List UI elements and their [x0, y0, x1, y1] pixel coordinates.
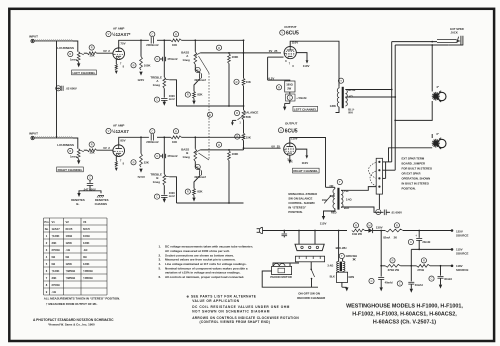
- svg-text:IN BUILT IN STEREO: IN BUILT IN STEREO: [402, 181, 430, 185]
- svg-text:270Ω 2W: 270Ω 2W: [388, 268, 400, 272]
- svg-text:R: R: [91, 143, 93, 147]
- ground B- below 82K ch2: [193, 195, 195, 197]
- cathode resistor V1B: [115, 157, 117, 162]
- svg-text:H-F1002, H-F1003, H-60ACS1, H-: H-F1002, H-F1003, H-60ACS1, H-60ACS2,: [352, 312, 457, 318]
- svg-text:R: R: [236, 135, 238, 139]
- svg-text:B: B: [209, 113, 211, 117]
- capacitor 1000mmf ch1: [163, 88, 165, 97]
- rectifier diode M1: [367, 223, 372, 228]
- capacitor 470mmf ch2: [163, 137, 165, 174]
- cathode bypass capacitor 50mfd: [289, 92, 291, 94]
- svg-text:BOARD. JUMPER: BOARD. JUMPER: [402, 162, 425, 166]
- output transformer T1: [338, 78, 343, 83]
- svg-text:(CONTROL VIEWED FROM SHAFT END: (CONTROL VIEWED FROM SHAFT END): [200, 320, 271, 324]
- svg-text:V: V: [280, 128, 282, 132]
- svg-text:C: C: [410, 240, 412, 244]
- svg-text:120K: 120K: [66, 241, 72, 245]
- svg-text:RECORD CHANGER: RECORD CHANGER: [297, 296, 326, 300]
- wire loudness wiper to R3 ch1: [84, 52, 87, 54]
- svg-text:SOURCE: SOURCE: [456, 268, 468, 272]
- svg-text:OPERATION. SHOWN: OPERATION. SHOWN: [402, 177, 431, 181]
- svg-text:C: C: [399, 282, 401, 286]
- svg-text:† MEASURED FROM OUTPUT OF M1: † MEASURED FROM OUTPUT OF M1.: [46, 302, 98, 306]
- resistor 100K bass return ch1: [216, 45, 221, 50]
- svg-text:R: R: [69, 52, 71, 56]
- svg-text:EXT SPKR: EXT SPKR: [450, 27, 463, 31]
- AC line plug: [259, 227, 262, 233]
- wire bass wiper grid rail ch2: [200, 149, 243, 151]
- svg-text:2W: 2W: [287, 87, 291, 91]
- svg-text:BLK: BLK: [330, 274, 335, 278]
- svg-text:0V: 0V: [269, 49, 273, 53]
- svg-text:.01 600V: .01 600V: [391, 210, 402, 214]
- filter capacitor 40mfd first: [369, 278, 374, 283]
- svg-text:120K: 120K: [66, 262, 72, 266]
- svg-text:2000mmf: 2000mmf: [146, 43, 158, 47]
- plate load resistor 100K ch2: [131, 160, 136, 165]
- svg-text:OUTPUT: OUTPUT: [285, 121, 298, 125]
- svg-text:LOUDNESS: LOUDNESS: [57, 143, 74, 147]
- plate rail wire ch1: [119, 40, 149, 48]
- svg-text:R: R: [187, 93, 189, 97]
- resistor 15K divider lower: [235, 134, 240, 139]
- wire 6.2V node to cathode resistor: [268, 79, 290, 82]
- svg-text:82K: 82K: [197, 190, 202, 194]
- svg-text:IN “STEREO”: IN “STEREO”: [288, 206, 306, 210]
- ganging dashed link bass controls: [199, 56, 210, 73]
- screen stub V2 110V: [296, 53, 307, 61]
- svg-text:110V: 110V: [302, 161, 309, 165]
- ext spkr terminal board: [376, 158, 382, 194]
- svg-text:120K: 120K: [83, 262, 89, 266]
- resistor 10K ch2: [173, 129, 178, 134]
- filter capacitor 40mfd second: [429, 276, 434, 281]
- svg-text:C: C: [151, 32, 153, 36]
- svg-text:40mfd: 40mfd: [444, 277, 452, 281]
- bass slider tap capacitor 3900mmf ch1: [195, 64, 200, 73]
- svg-text:2000mmf: 2000mmf: [146, 140, 158, 144]
- svg-text:+ 50mfd: + 50mfd: [296, 96, 307, 100]
- svg-text:20mfd: 20mfd: [422, 240, 430, 244]
- svg-text:470mmf: 470mmf: [167, 57, 177, 61]
- svg-text:C: C: [156, 98, 158, 102]
- resistor 82K ch2: [194, 175, 200, 188]
- svg-text:130V: 130V: [376, 226, 383, 230]
- svg-text:V2: V2: [66, 220, 70, 224]
- wire T1 blue tap to ext spkr jack: [345, 89, 391, 91]
- svg-text:1meg: 1meg: [153, 83, 161, 87]
- svg-text:R: R: [133, 160, 135, 164]
- svg-text:C: C: [89, 176, 91, 180]
- svg-text:85V: 85V: [120, 139, 125, 143]
- wire treble wiper to junction ch2: [169, 177, 176, 203]
- svg-text:NOT SHOWN ON SCHEMATIC DIAGRAM: NOT SHOWN ON SCHEMATIC DIAGRAM: [192, 310, 270, 314]
- wire drops to record changer plug: [298, 231, 300, 245]
- svg-text:R: R: [187, 190, 189, 194]
- svg-text:R: R: [396, 223, 398, 227]
- wire term board bottom to cap: [378, 194, 380, 209]
- svg-text:82mA: 82mA: [383, 235, 390, 239]
- bass control 1meg ch1: [194, 40, 196, 52]
- wire speaker2 to term board: [431, 134, 433, 138]
- svg-text:†120K: †120K: [52, 234, 60, 238]
- svg-text:100Ω: 100Ω: [66, 234, 73, 238]
- svg-text:ALL MEASUREMENTS TAKEN IN “STE: ALL MEASUREMENTS TAKEN IN “STEREO” POSIT…: [44, 297, 120, 301]
- svg-text:180Ω: 180Ω: [286, 83, 293, 87]
- balance control 50K: [234, 110, 239, 115]
- surge resistor 2K: [394, 223, 399, 228]
- svg-text:BALANCE: BALANCE: [244, 111, 258, 115]
- svg-text:110V: 110V: [303, 64, 310, 68]
- svg-text:10Ω 2W: 10Ω 2W: [352, 232, 362, 236]
- capacitor .02 600V across inputs: [56, 86, 61, 91]
- svg-text:†3850Ω: †3850Ω: [66, 269, 76, 273]
- resistor 33K grid stopper ch1: [89, 45, 94, 50]
- svg-text:WESTINGHOUSE MODELS H-F1000, H: WESTINGHOUSE MODELS H-F1000, H-F1001,: [346, 304, 463, 310]
- svg-text:33K: 33K: [52, 241, 57, 245]
- svg-text:V1: V1: [52, 220, 56, 224]
- wire loudness wiper to R3 ch2: [84, 149, 87, 151]
- AC line wire upper: [263, 230, 348, 232]
- resistor 10K ch1: [173, 32, 178, 37]
- ground B- below 82K ch1: [193, 98, 195, 100]
- wire upper cathode feed vertical: [267, 57, 269, 80]
- svg-text:25: 25: [274, 49, 278, 53]
- wire to V1A grid: [97, 52, 113, 54]
- svg-text:GRN: GRN: [330, 104, 336, 108]
- boxed label LEFT CHANNEL preamp: [72, 70, 97, 75]
- svg-text:½12AX7: ½12AX7: [112, 129, 129, 134]
- svg-text:470mmf: 470mmf: [167, 154, 177, 158]
- svg-text:†3850Ω: †3850Ω: [66, 276, 76, 280]
- svg-text:1meg: 1meg: [153, 180, 161, 184]
- line bypass capacitor: [283, 230, 285, 232]
- svg-text:1meg: 1meg: [70, 58, 78, 62]
- svg-text:PHONO MOTOR: PHONO MOTOR: [270, 275, 291, 279]
- svg-text:POSITION.: POSITION.: [288, 210, 302, 214]
- ground B- under motor box: [341, 282, 343, 287]
- svg-text:C: C: [371, 279, 373, 283]
- svg-text:BLK-WH: BLK-WH: [336, 246, 347, 250]
- svg-text:FOR BUILT IN STEREO: FOR BUILT IN STEREO: [402, 167, 433, 171]
- svg-text:33K: 33K: [52, 276, 57, 280]
- svg-text:100Ω: 100Ω: [83, 234, 90, 238]
- screen stub V3 110V: [296, 149, 307, 155]
- tone network bottom wire ch2: [177, 202, 244, 204]
- filter capacitor 40mfd middle: [397, 281, 402, 286]
- svg-text:R: R: [355, 223, 357, 227]
- svg-text:AF AMP: AF AMP: [113, 26, 124, 30]
- svg-text:10K: 10K: [246, 80, 251, 84]
- left channel circuitry: [29, 26, 244, 107]
- svg-text:115V: 115V: [320, 222, 327, 226]
- svg-text:22K: 22K: [144, 161, 149, 165]
- svg-text:82K: 82K: [197, 93, 202, 97]
- svg-text:1meg: 1meg: [182, 58, 190, 62]
- svg-text:0V: 0V: [103, 49, 107, 53]
- record changer socket connector: [295, 256, 324, 262]
- svg-text:Pin: Pin: [44, 220, 49, 224]
- boxed label RIGHT CHANNEL output: [293, 168, 320, 173]
- svg-text:2700Ω: 2700Ω: [52, 283, 61, 287]
- svg-text:JACK: JACK: [451, 31, 458, 35]
- svg-text:1meg: 1meg: [70, 155, 78, 159]
- svg-text:3.4Ω: 3.4Ω: [346, 198, 352, 202]
- svg-text:R: R: [69, 149, 71, 153]
- svg-text:RIGHT CHANNEL: RIGHT CHANNEL: [58, 168, 83, 172]
- T1 primary bottom lead: [336, 107, 340, 113]
- svg-text:1meg: 1meg: [182, 155, 190, 159]
- svg-text:EXT SPKR TERM: EXT SPKR TERM: [402, 157, 425, 161]
- svg-text:V: V: [108, 32, 110, 36]
- svg-text:C: C: [156, 57, 158, 61]
- capacitor .01 600V ext spkr: [376, 209, 381, 214]
- phono motor leads: [273, 263, 299, 266]
- ground B- at loudness R ch2: [78, 159, 80, 160]
- wire T2 yel tap to board: [341, 187, 376, 191]
- wire 118V source line: [381, 265, 385, 267]
- jumper dashed arcs on term board: [369, 163, 377, 179]
- svg-text:100K: 100K: [144, 64, 151, 68]
- voltage chart table: [44, 218, 108, 295]
- svg-text:120K: 120K: [83, 241, 89, 245]
- bass control 1meg ch2: [194, 137, 196, 149]
- svg-text:+: +: [415, 234, 417, 238]
- svg-text:*Howard W. Sams & Co., Inc. 19: *Howard W. Sams & Co., Inc. 1960: [48, 322, 95, 326]
- svg-text:6CU5: 6CU5: [285, 129, 298, 135]
- svg-text:AF AMP: AF AMP: [113, 123, 124, 127]
- shielded input cable ch2: [35, 137, 74, 139]
- svg-text:POSITION.: POSITION.: [402, 186, 416, 190]
- svg-text:LEFT CHANNEL: LEFT CHANNEL: [294, 107, 317, 111]
- wire input to loudness ch1: [73, 41, 78, 52]
- wire bass wiper grid rail ch1: [200, 52, 243, 54]
- right channel circuitry: [29, 123, 244, 204]
- coupling capacitor 2000mmf ch2: [150, 129, 155, 134]
- resistor 10K divider: [234, 79, 239, 84]
- svg-text:40mfd: 40mfd: [385, 281, 393, 285]
- wire treble wiper to junction ch1: [169, 80, 176, 106]
- motor field box: [336, 272, 347, 282]
- svg-text:C: C: [156, 195, 158, 199]
- svg-text:R: R: [133, 63, 135, 67]
- wire to 125V source: [403, 230, 452, 232]
- svg-text:25: 25: [277, 144, 281, 148]
- svg-text:R: R: [91, 46, 93, 50]
- svg-text:BLK: BLK: [344, 206, 349, 210]
- svg-text:All controls at minimum, prope: All controls at minimum, proper output l…: [165, 275, 244, 279]
- wires into term board: [383, 161, 392, 163]
- svg-text:V: V: [108, 129, 110, 133]
- B plus bus vertical with ground: [380, 231, 382, 277]
- power transformer T3 windings: [338, 231, 340, 262]
- svg-text:YEL: YEL: [344, 189, 349, 193]
- svg-text:SOURCE: SOURCE: [456, 234, 468, 238]
- svg-text:SOURCE: SOURCE: [456, 251, 468, 255]
- svg-text:6.: 6.: [159, 275, 162, 279]
- svg-text:0V: 0V: [103, 146, 107, 150]
- ground B- cathode network: [289, 101, 291, 103]
- svg-text:INPUT: INPUT: [29, 131, 38, 135]
- svg-text:DENOTES: DENOTES: [71, 198, 85, 202]
- svg-text:33K: 33K: [90, 151, 95, 155]
- cathode resistor V1A: [115, 60, 117, 65]
- resistor 82K ch1: [194, 78, 200, 91]
- svg-text:15K: 15K: [246, 135, 251, 139]
- boxed label RIGHT CHANNEL preamp: [57, 167, 84, 172]
- coupling capacitor 2000mmf ch1: [150, 32, 155, 37]
- svg-text:CONTROL. SHOWN: CONTROL. SHOWN: [288, 201, 314, 205]
- rectifier line resistor 10ohm 2W: [353, 223, 358, 228]
- svg-text:SW ON BALANCE: SW ON BALANCE: [288, 197, 312, 201]
- svg-text:.02 600V: .02 600V: [66, 87, 77, 91]
- svg-text:R: R: [218, 143, 220, 147]
- svg-text:OR EXT SPKR: OR EXT SPKR: [402, 172, 421, 176]
- plate wire V2 to output transformer T1: [290, 41, 339, 86]
- wire speaker1 to bus: [395, 101, 432, 120]
- svg-text:C: C: [377, 210, 379, 214]
- svg-text:⊕ SEE PARTS LIST FOR ALTERNATE: ⊕ SEE PARTS LIST FOR ALTERNATE: [187, 295, 257, 299]
- svg-text:C: C: [431, 277, 433, 281]
- svg-text:R: R: [423, 259, 425, 263]
- svg-text:R: R: [175, 32, 177, 36]
- svg-text:2700Ω: 2700Ω: [52, 248, 61, 252]
- svg-text:M: M: [368, 223, 370, 227]
- ground B- below 1000mmf ch1: [163, 100, 165, 101]
- wire T1 yel tap to jack lower: [345, 96, 395, 98]
- grid wire V3: [244, 147, 281, 149]
- svg-text:RIGHT CHANNEL: RIGHT CHANNEL: [293, 169, 318, 173]
- svg-text:C: C: [156, 154, 158, 158]
- boxed label LEFT CHANNEL output: [293, 106, 318, 111]
- svg-text:B-: B-: [76, 202, 79, 206]
- svg-text:0V: 0V: [271, 144, 275, 148]
- B+ divider vertical wire: [243, 40, 245, 78]
- wire T2 blk tap to cap C .01: [341, 207, 383, 212]
- svg-text:½12AX7*: ½12AX7*: [112, 32, 131, 37]
- filter capacitor 20mfd: [408, 239, 413, 244]
- ground B- arrow power bus: [380, 287, 383, 291]
- svg-text:3.4Ω: 3.4Ω: [327, 264, 334, 268]
- svg-text:C: C: [197, 165, 199, 169]
- svg-text:VALUE OR APPLICATION: VALUE OR APPLICATION: [192, 299, 240, 303]
- svg-text:C: C: [197, 68, 199, 72]
- svg-text:ARROWS ON CONTROLS INDICATE CL: ARROWS ON CONTROLS INDICATE CLOCKWISE RO…: [192, 316, 299, 320]
- svg-text:GRN-WH: GRN-WH: [346, 254, 357, 258]
- svg-text:R: R: [218, 46, 220, 50]
- svg-text:†120K: †120K: [52, 269, 60, 273]
- resistor 270ohm 2W: [390, 258, 395, 263]
- svg-text:R: R: [236, 80, 238, 84]
- svg-text:R: R: [175, 129, 177, 133]
- svg-text:R: R: [392, 259, 394, 263]
- ground B- below 1000mmf ch2: [163, 197, 165, 198]
- svg-text:mmf: mmf: [169, 194, 175, 198]
- svg-text:DC COIL RESISTANCE VALUES UNDE: DC COIL RESISTANCE VALUES UNDER ONE OHM: [192, 305, 290, 309]
- svg-text:C: C: [289, 96, 291, 100]
- resistor 100K bass return ch2: [216, 142, 221, 147]
- svg-text:10K: 10K: [172, 140, 177, 144]
- input shield bus wire: [56, 41, 58, 138]
- svg-text:No: No: [45, 227, 49, 231]
- svg-text:50K: 50K: [246, 115, 251, 119]
- svg-text:B: B: [156, 176, 158, 180]
- svg-text:10K: 10K: [172, 43, 177, 47]
- shielded input cable ch1: [35, 40, 74, 42]
- cathode ground V3: [289, 155, 291, 159]
- output transformer T2: [337, 179, 342, 184]
- svg-text:R: R: [236, 111, 238, 115]
- cathode resistor 180ohm 2W boxed: [276, 85, 281, 90]
- svg-text:6CU5: 6CU5: [83, 227, 90, 231]
- capacitor 470mmf ch1: [163, 40, 165, 77]
- svg-text:100K: 100K: [232, 152, 239, 156]
- grid coupling wire to output tube V2: [244, 52, 282, 54]
- svg-text:LEFT CHANNEL: LEFT CHANNEL: [73, 71, 96, 75]
- resistor 33K grid stopper ch2: [89, 142, 94, 147]
- legend branch to chassis: [90, 191, 101, 193]
- capacitor 1000mmf ch2: [163, 185, 165, 194]
- svg-text:H-60ACS3 (Ch. V-2507-1): H-60ACS3 (Ch. V-2507-1): [373, 320, 436, 326]
- svg-text:DENOTES: DENOTES: [95, 198, 109, 202]
- cathode wire V2 to bias network: [268, 56, 284, 58]
- svg-text:MONAURAL-STEREO: MONAURAL-STEREO: [288, 192, 318, 196]
- bass slider tap capacitor 3900mmf ch2: [195, 161, 200, 170]
- legend capacitor .047 600V: [87, 175, 92, 180]
- wire phono motor to bottom run: [262, 271, 318, 287]
- wire to V1B grid: [97, 149, 113, 151]
- svg-text:100K: 100K: [232, 55, 239, 59]
- svg-text:V3: V3: [83, 220, 87, 224]
- wire 115V source line: [411, 248, 452, 250]
- svg-text:CHASSIS: CHASSIS: [95, 202, 108, 206]
- svg-text:5.: 5.: [159, 266, 162, 270]
- plate rail wire ch2: [119, 137, 149, 145]
- junction ref circle on gang line: [207, 112, 212, 117]
- wire input to loudness ch2: [73, 138, 78, 149]
- svg-text:mmf: mmf: [169, 97, 175, 101]
- svg-text:†3850Ω: †3850Ω: [83, 269, 93, 273]
- plate wire V3 to output transformer T2: [290, 138, 326, 188]
- svg-text:33K: 33K: [90, 54, 95, 58]
- svg-text:V: V: [281, 31, 283, 35]
- legend branch to B- arrow: [79, 191, 90, 193]
- svg-text:A PHOTOFACT STANDARD NOTATION: A PHOTOFACT STANDARD NOTATION SCHEMATIC: [33, 318, 114, 322]
- svg-text:124V: 124V: [137, 78, 144, 82]
- ground B- at loudness R ch1: [78, 62, 80, 63]
- wire jack to speaker 1: [431, 45, 433, 92]
- plate load resistor 100K ch1: [131, 63, 136, 68]
- svg-text:72.5V: 72.5V: [137, 175, 145, 179]
- record changer plug connector: [295, 244, 324, 250]
- on-off switch on record changer: [310, 262, 312, 270]
- phono motor: [274, 264, 280, 267]
- tone network bottom wire ch1: [177, 105, 244, 107]
- svg-text:GRN: GRN: [348, 275, 354, 279]
- resistor 270ohm: [421, 258, 426, 263]
- svg-text:12AX7: 12AX7: [52, 227, 61, 231]
- svg-text:270Ω: 270Ω: [417, 268, 424, 272]
- svg-text:6CU5: 6CU5: [286, 31, 299, 37]
- svg-text:40mfd: 40mfd: [415, 283, 423, 287]
- svg-text:INPUT: INPUT: [29, 34, 38, 38]
- svg-text:75V: 75V: [120, 42, 125, 46]
- svg-text:C: C: [151, 129, 153, 133]
- svg-text:6CU5: 6CU5: [66, 227, 73, 231]
- svg-text:OUTPUT: OUTPUT: [284, 25, 297, 29]
- svg-text:†3850Ω: †3850Ω: [83, 276, 93, 280]
- svg-text:1.: 1.: [159, 245, 162, 249]
